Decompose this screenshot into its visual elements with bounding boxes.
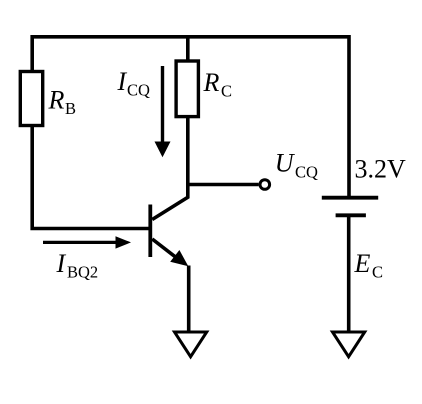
wire: RC branch vertical with collector slant	[152, 37, 188, 220]
svg-text:C: C	[221, 82, 232, 101]
svg-text:R: R	[203, 68, 220, 97]
svg-text:3.2V: 3.2V	[355, 155, 407, 184]
wire: collector output to UCQ terminal	[188, 183, 259, 186]
svg-text:I: I	[56, 249, 67, 278]
resistor RC	[176, 61, 198, 117]
svg-text:E: E	[354, 249, 371, 278]
current arrow ICQ	[155, 66, 171, 157]
transistor emitter with arrow	[152, 239, 188, 266]
svg-text:R: R	[48, 86, 65, 115]
wire: battery to ground	[347, 215, 351, 333]
wire: left branch (base wire, left vertical, top wire, right vertical)	[32, 37, 349, 229]
wire: emitter vertical to ground	[187, 266, 191, 334]
svg-text:BQ2: BQ2	[67, 263, 98, 282]
svg-text:CQ: CQ	[295, 163, 318, 182]
svg-text:U: U	[275, 149, 296, 178]
resistor RB	[20, 72, 42, 126]
svg-text:I: I	[117, 67, 128, 96]
terminal UCQ (open circle)	[260, 180, 270, 190]
ground (emitter)	[175, 332, 207, 357]
ground (battery)	[333, 332, 365, 357]
battery EC: short plate	[336, 213, 366, 217]
svg-text:CQ: CQ	[127, 81, 150, 100]
battery EC: long plate	[322, 196, 378, 200]
svg-text:C: C	[372, 263, 383, 282]
svg-text:B: B	[65, 99, 76, 118]
current arrow IBQ2	[43, 236, 131, 248]
transistor Q (NPN): base bar	[148, 205, 152, 258]
